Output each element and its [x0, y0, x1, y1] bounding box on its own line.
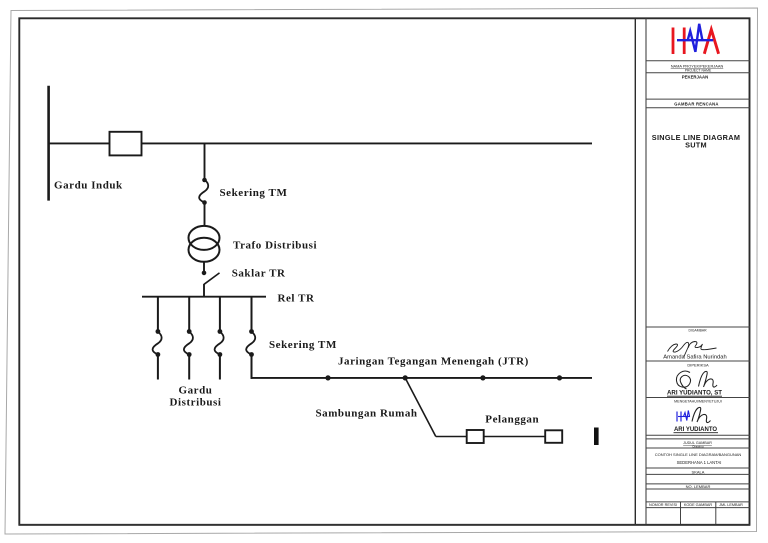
wire between customer boxes: [484, 436, 546, 438]
H left bar (red): [672, 28, 675, 55]
svg-text:MENGETAHUI/MENYETUJUI: MENGETAHUI/MENYETUJUI: [674, 400, 722, 404]
frame bottom reinforcement: [19, 524, 750, 526]
terminal bar: [594, 428, 599, 446]
junction dot 1: [325, 375, 330, 380]
junction dot 3: [480, 375, 485, 380]
fuse feeder 2: [184, 329, 193, 357]
crossbar (blue): [677, 39, 713, 41]
fuse feeder 4: [246, 329, 255, 357]
signature 1: [668, 342, 717, 358]
svg-text:DIGAMBAR: DIGAMBAR: [688, 329, 707, 333]
wire service drop diagonal: [405, 378, 436, 437]
svg-text:Distribusi: Distribusi: [170, 397, 222, 409]
H right bar (red): [683, 28, 686, 55]
logo HWA: [673, 24, 719, 54]
signature 2: [676, 371, 717, 389]
bus Rel TR: [142, 296, 266, 298]
svg-text:PEKERJAAN: PEKERJAAN: [682, 75, 709, 80]
svg-text:ARI YUDIANTO: ARI YUDIANTO: [674, 427, 717, 433]
svg-text:PROJECT NAME: PROJECT NAME: [685, 69, 712, 73]
A (red): [704, 30, 718, 54]
customer box 2: [545, 430, 562, 443]
feeder 2 wire: [188, 297, 190, 332]
title block left edge: [645, 19, 647, 525]
junction dot 2: [403, 375, 408, 380]
frame divider: [634, 19, 636, 525]
svg-text:Gardu Induk: Gardu Induk: [54, 180, 123, 192]
svg-text:Trafo Distribusi: Trafo Distribusi: [233, 240, 317, 252]
svg-text:Rel TR: Rel TR: [278, 293, 316, 305]
breaker box on HV line: [110, 132, 142, 156]
feeder 4 wire to JTR: [251, 355, 253, 379]
feeder 1 wire: [157, 297, 159, 332]
svg-text:JML LEMBAR: JML LEMBAR: [719, 503, 743, 507]
wire JTR line: [251, 377, 592, 379]
wire to customer box 1: [436, 436, 467, 438]
svg-text:KODE GAMBAR: KODE GAMBAR: [684, 503, 713, 507]
customer box 1: [467, 430, 484, 443]
svg-text:Sambungan Rumah: Sambungan Rumah: [316, 408, 418, 420]
wire HV feeder line: [49, 142, 592, 144]
fuse Sekering TM (top): [199, 178, 208, 205]
feeder 2 tail wire: [188, 355, 190, 380]
svg-text:SKALA: SKALA: [692, 469, 705, 474]
signature 3 with blue mini logo: [677, 411, 690, 422]
feeder 3 tail wire: [219, 355, 221, 380]
junction dot 4: [557, 375, 562, 380]
busbar Gardu Induk: [47, 86, 50, 201]
wire fuse to transformer: [204, 203, 206, 227]
transformer Trafo Distribusi: [189, 226, 220, 262]
feeder 3 wire: [219, 297, 221, 332]
W waveform (blue): [688, 24, 703, 52]
wire transformer to switch: [203, 262, 205, 273]
svg-text:NOMOR REVISI: NOMOR REVISI: [649, 503, 677, 507]
svg-text:Sekering TM: Sekering TM: [220, 187, 288, 199]
svg-text:Saklar TR: Saklar TR: [232, 268, 286, 280]
svg-text:GAMBAR RENCANA: GAMBAR RENCANA: [674, 101, 718, 106]
fuse feeder 3: [215, 329, 224, 357]
svg-text:Gardu: Gardu: [179, 385, 213, 397]
switch Saklar TR: [202, 271, 220, 298]
fuse feeder 1: [153, 329, 162, 357]
wire drop to fuse: [204, 144, 206, 180]
svg-text:ARI YUDIANTO, ST: ARI YUDIANTO, ST: [667, 390, 722, 397]
svg-text:SEDERHANA 1 LANTAI: SEDERHANA 1 LANTAI: [677, 460, 722, 465]
svg-text:CONTOH SINGLE LINE DIAGRAM/BAN: CONTOH SINGLE LINE DIAGRAM/BANGUNAN: [655, 452, 742, 457]
svg-text:NO. LEMBAR: NO. LEMBAR: [686, 484, 711, 489]
svg-text:Amanda Safira Nurindah: Amanda Safira Nurindah: [663, 355, 726, 361]
feeder 4 wire: [251, 297, 253, 332]
svg-text:DIPERIKSA: DIPERIKSA: [687, 363, 709, 368]
svg-text:Pelanggan: Pelanggan: [485, 414, 539, 426]
title block row lines: [646, 60, 750, 62]
svg-text:SUTM: SUTM: [685, 141, 707, 150]
svg-text:Jaringan Tegangan Menengah (JT: Jaringan Tegangan Menengah (JTR): [338, 356, 529, 368]
svg-text:Sekering TM: Sekering TM: [269, 339, 337, 351]
feeder 1 tail wire: [157, 355, 159, 380]
